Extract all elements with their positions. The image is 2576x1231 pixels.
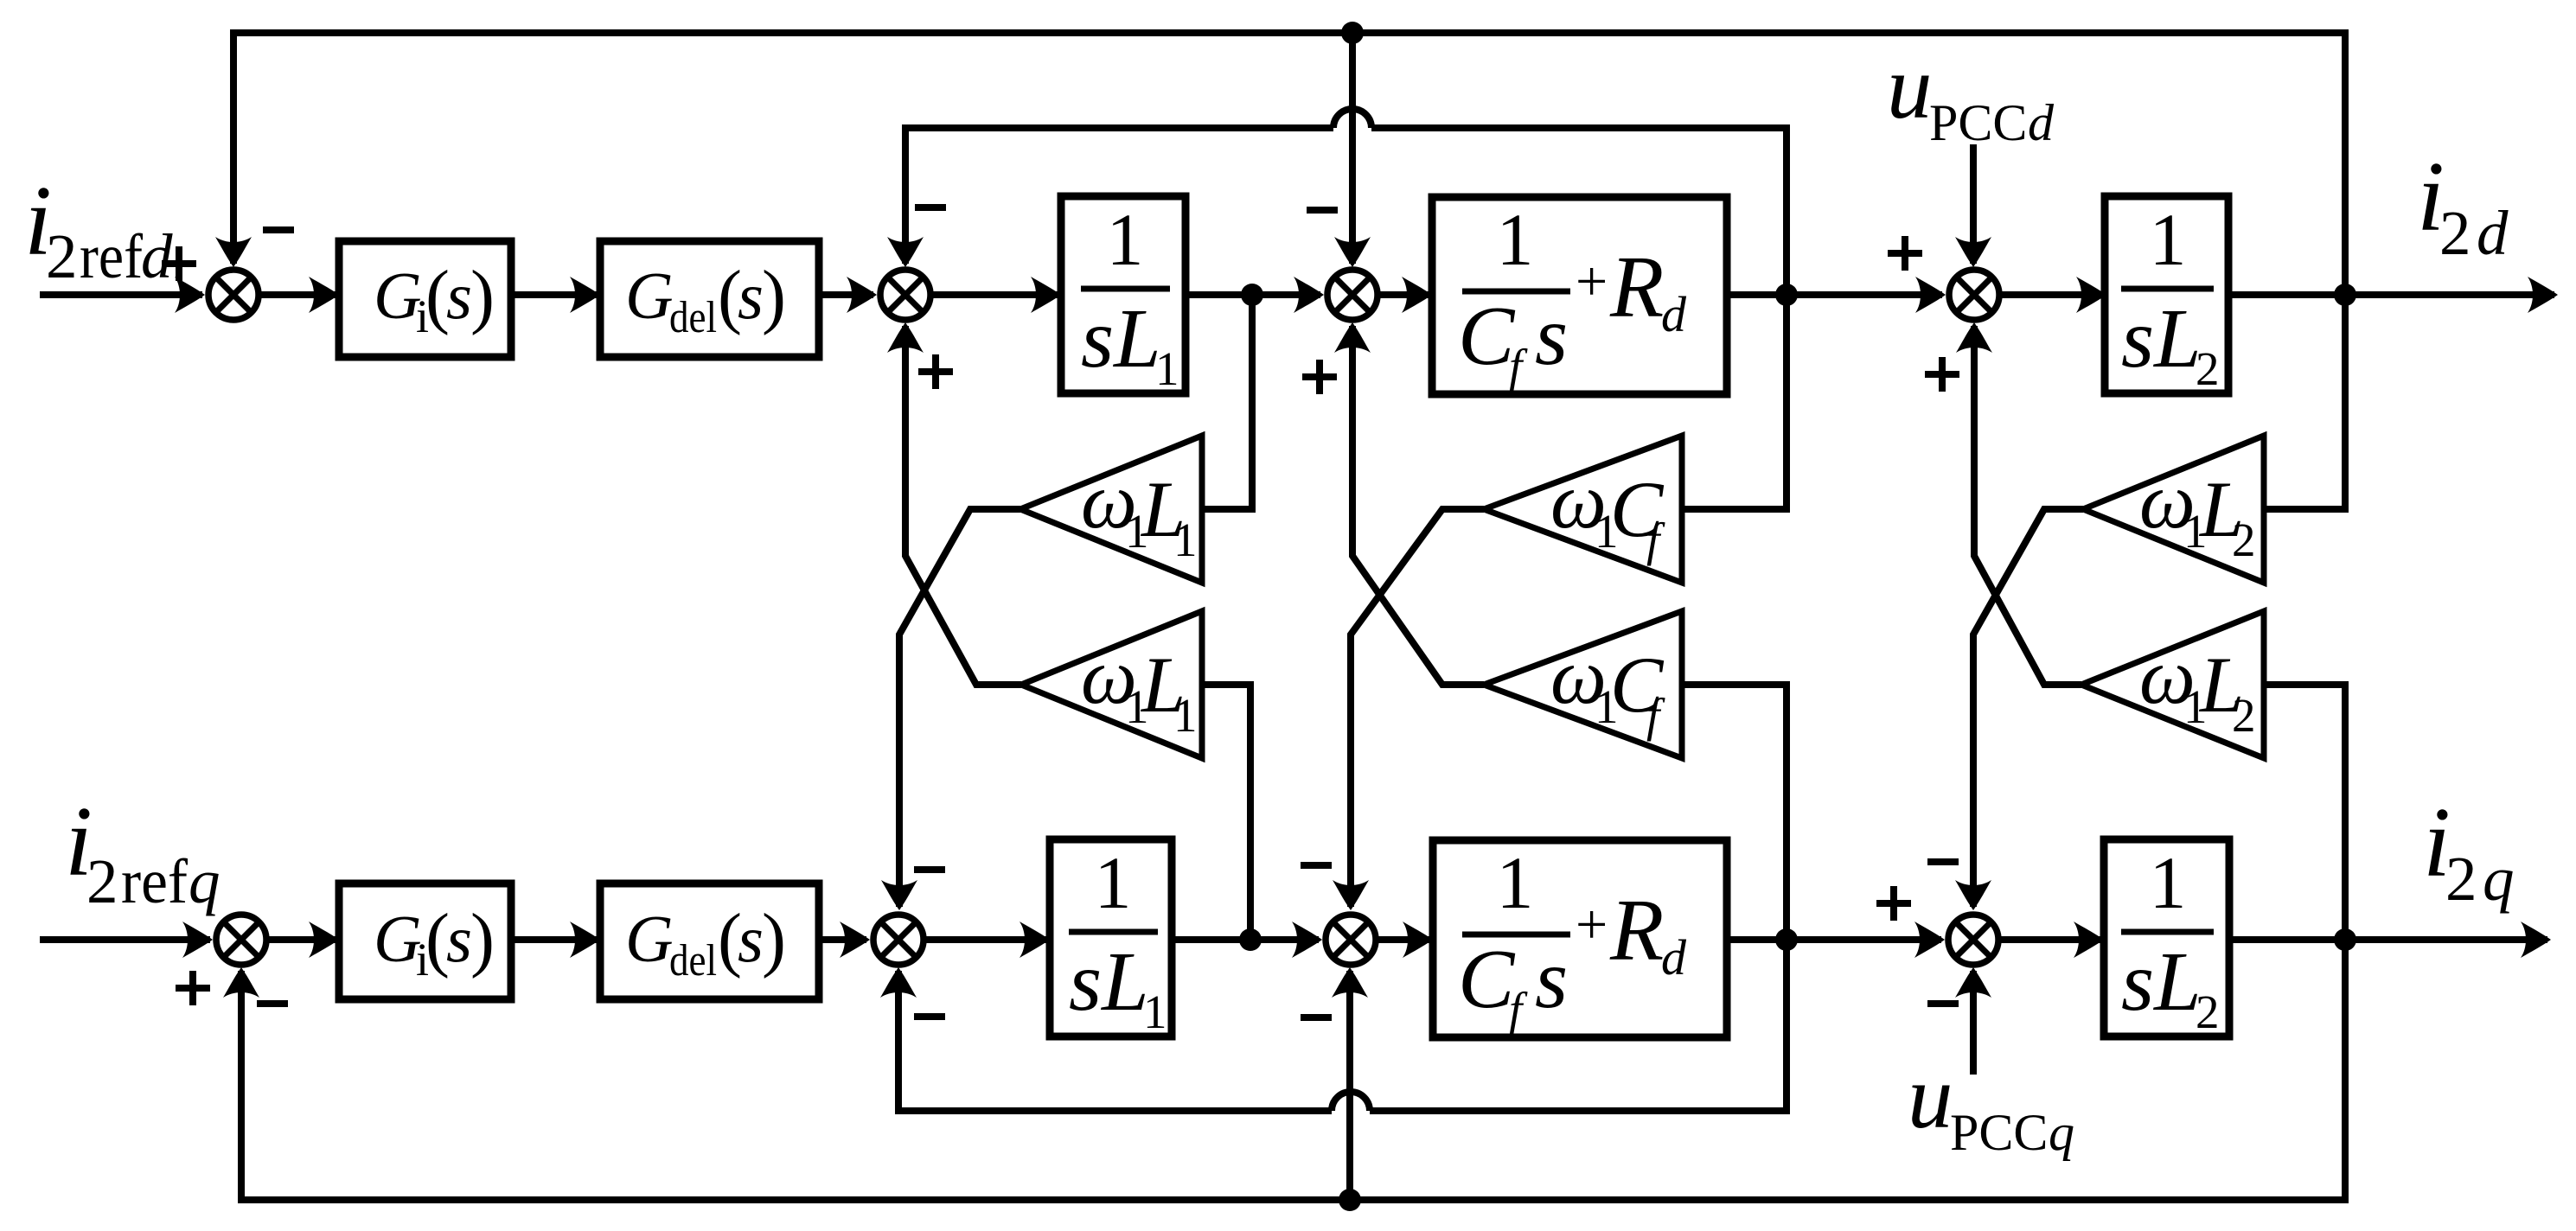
- svg-text:G: G: [625, 902, 674, 976]
- wire: i2q feedback bottom loop: [241, 940, 2345, 1200]
- block Gdel(s) d-axis: [600, 241, 819, 357]
- block Gdel(s) q-axis: [600, 883, 819, 999]
- wire: bottom feedback branch up to S3q: [1346, 971, 1353, 1200]
- sign plus at S3d bottom input: [1302, 360, 1337, 394]
- wire: w1L2 bottom output cross-coupled up to S4d: [1974, 326, 2081, 685]
- svg-text:2: 2: [86, 846, 118, 916]
- wire: S3q to Cf block q: [1378, 936, 1429, 943]
- svg-text:1: 1: [1155, 342, 1179, 395]
- svg-text:sL: sL: [1069, 935, 1149, 1029]
- wire: uCq feedforward to S2q with hop over S3q branch: [1370, 940, 1787, 1111]
- svg-text:s: s: [1535, 933, 1568, 1026]
- svg-text:1: 1: [2150, 841, 2187, 924]
- block 1/sL1 q-axis: [1050, 839, 1172, 1036]
- summing junction S2q: [873, 915, 924, 965]
- gain triangle w1Cf top (input uCd): [1484, 436, 1682, 583]
- svg-text:d: d: [1661, 929, 1687, 985]
- svg-text:sL: sL: [1081, 292, 1161, 386]
- node i2q junction dot: [2334, 928, 2356, 951]
- summing junction S4q: [1948, 915, 1998, 965]
- node i1d junction dot: [1241, 284, 1263, 306]
- sign minus at S2q bottom input: [914, 1016, 945, 1017]
- wire: 1/sL1 q to S3q with node i1q: [1172, 936, 1319, 943]
- svg-text:2: 2: [2196, 985, 2220, 1038]
- svg-text:R: R: [1609, 239, 1664, 336]
- svg-text:s: s: [446, 902, 472, 976]
- node uCq junction dot: [1775, 928, 1798, 951]
- wire: node i2q up into w1L2 bottom triangle input: [2264, 685, 2345, 940]
- svg-text:1: 1: [1095, 841, 1132, 924]
- svg-text:del: del: [669, 936, 717, 985]
- summing junction S1d (d-axis first): [208, 270, 259, 320]
- wire: Cf q to S4q with node uCq: [1727, 936, 1941, 943]
- gain triangle w1L2 top (input i2d): [2083, 436, 2264, 583]
- wire: 1/sL2 q to output i2q: [2229, 936, 2547, 943]
- wire: S2d to 1/sL1 d: [933, 291, 1058, 298]
- gain triangle w1L1 bottom (input i1q): [1021, 611, 1202, 758]
- sign plus at S1q main input: [176, 971, 210, 1005]
- wire: node uCq up into w1Cf bottom triangle input: [1682, 685, 1787, 940]
- svg-text:): ): [762, 899, 786, 979]
- sign minus at S4q top input: [1927, 861, 1959, 863]
- sign plus at S4d upper-left: [1888, 236, 1922, 271]
- wire: top feedback branch down to S3d: [1349, 33, 1356, 264]
- svg-text:2: 2: [2445, 844, 2477, 914]
- summing junction S3d: [1327, 270, 1377, 320]
- svg-text:2: 2: [46, 221, 78, 291]
- wire: S4q to 1/sL2 q: [2001, 936, 2100, 943]
- summing junction S3q: [1326, 915, 1376, 965]
- wire: w1Cf top output cross-coupled down to S3q: [1351, 509, 1484, 907]
- wire: Gi q to Gdel q: [511, 936, 597, 943]
- wire: d-axis input line i2refd: [40, 291, 202, 298]
- sign minus at S3d top input: [1307, 209, 1338, 211]
- summing junction S1q: [216, 915, 266, 965]
- wire: w1Cf bottom output cross-coupled up to S3d: [1352, 326, 1484, 685]
- wire: i2d feedback top loop: [233, 33, 2345, 295]
- wire: S2q to 1/sL1 q: [926, 936, 1046, 943]
- wire: Cf d to S4d with node uCd: [1727, 291, 1942, 298]
- wire: S4d to 1/sL2 d: [2002, 291, 2103, 298]
- wire: uCd feedforward to S2d with hop over S3d branch: [1371, 128, 1787, 295]
- svg-text:d: d: [1661, 286, 1687, 342]
- wire: node uCd down into w1Cf top triangle input: [1682, 295, 1787, 509]
- wire: 1/sL2 d to output i2d: [2228, 291, 2554, 298]
- svg-text:d: d: [2477, 198, 2509, 268]
- svg-text:del: del: [669, 293, 717, 342]
- svg-text:R: R: [1609, 882, 1664, 979]
- sign minus at S3q top input: [1301, 864, 1332, 866]
- svg-text:q: q: [2483, 844, 2515, 914]
- wire: S1d to Gi(s) d: [261, 291, 336, 298]
- wire: node i1q up into w1L1 bottom triangle input: [1202, 685, 1250, 940]
- svg-text:): ): [470, 256, 495, 336]
- sign minus at S4q bottom input: [1927, 1003, 1959, 1005]
- wire: q-axis input line i2refq: [40, 936, 210, 943]
- svg-text:q: q: [189, 846, 221, 916]
- sign minus at S3q bottom input: [1301, 1017, 1332, 1018]
- svg-text:1: 1: [1173, 689, 1198, 742]
- block 1/sL1 d-axis: [1061, 196, 1186, 393]
- node i2d junction dot: [2334, 284, 2356, 306]
- sign minus at S1q feedback input: [257, 1003, 288, 1005]
- wire: w1L2 top output cross-coupled down to S4q: [1973, 509, 2083, 907]
- sign minus at S2q top input: [914, 869, 945, 871]
- svg-text:s: s: [446, 258, 472, 333]
- block 1/sL2 d-axis: [2105, 196, 2228, 393]
- svg-text:ref: ref: [80, 221, 144, 291]
- svg-text:PCC: PCC: [1950, 1104, 2048, 1161]
- sign minus at S2d top input: [915, 207, 946, 208]
- svg-text:1: 1: [1143, 985, 1167, 1038]
- svg-text:+: +: [1576, 893, 1608, 956]
- wire: Gi d to Gdel d: [511, 291, 597, 298]
- node on bottom feedback line: [1339, 1189, 1361, 1211]
- wire: Gdel q to S2q: [819, 936, 866, 943]
- wire: w1L1 bottom output cross-coupled up to S2d: [905, 326, 1021, 685]
- svg-text:): ): [470, 899, 495, 979]
- svg-text:s: s: [738, 902, 764, 976]
- gain triangle w1L1 top (input i1d): [1020, 436, 1202, 583]
- svg-text:+: +: [1576, 250, 1608, 313]
- svg-text:2: 2: [2232, 513, 2256, 566]
- svg-text:s: s: [1535, 290, 1568, 383]
- block 1/sL2 q-axis: [2104, 839, 2229, 1036]
- block 1/(Cf s)+Rd d-axis: [1432, 197, 1727, 394]
- svg-text:G: G: [374, 902, 422, 976]
- svg-text:d: d: [2028, 94, 2055, 151]
- svg-text:u: u: [1908, 1046, 1953, 1147]
- block Gi(s) q-axis: [339, 883, 511, 999]
- node on top feedback line: [1341, 22, 1364, 44]
- svg-text:2: 2: [2232, 689, 2256, 742]
- sign plus at S4d bottom input: [1925, 357, 1959, 392]
- svg-text:d: d: [141, 221, 173, 291]
- svg-text:1: 1: [1107, 198, 1144, 281]
- svg-text:PCC: PCC: [1929, 94, 2027, 151]
- svg-text:G: G: [374, 258, 422, 333]
- svg-text:1: 1: [1173, 513, 1198, 566]
- svg-text:C: C: [1458, 933, 1516, 1026]
- wire: S3d to Cf block d: [1380, 291, 1429, 298]
- svg-text:2: 2: [2439, 198, 2471, 268]
- wire: uPCCq input arrow into S4q: [1970, 971, 1977, 1075]
- block 1/(Cf s)+Rd q-axis: [1433, 840, 1727, 1037]
- summing junction S4d: [1949, 270, 1999, 320]
- svg-text:ref: ref: [121, 846, 189, 916]
- svg-text:C: C: [1458, 290, 1516, 383]
- svg-text:1: 1: [1497, 198, 1534, 281]
- sign plus at S4q main input: [1876, 886, 1911, 921]
- wire: node i2d down into w1L2 top triangle input: [2264, 295, 2345, 509]
- summing junction S2d: [880, 270, 930, 320]
- node uCd junction dot: [1775, 284, 1798, 306]
- block Gi(s) d-axis: [339, 241, 511, 357]
- wire: Gdel d to S2d: [819, 291, 873, 298]
- gain triangle w1Cf bottom (input uCq): [1484, 611, 1682, 758]
- gain triangle w1L2 bottom (input i2q): [2081, 611, 2264, 758]
- svg-text:sL: sL: [2121, 935, 2202, 1029]
- sign plus at S2d bottom input: [918, 354, 953, 389]
- svg-text:2: 2: [2196, 342, 2220, 395]
- sign minus at S1d feedback input: [263, 229, 294, 231]
- wire: 1/sL1 d to S3d with node i1d: [1186, 291, 1320, 298]
- svg-text:u: u: [1887, 36, 1933, 137]
- node i1q junction dot: [1239, 928, 1262, 951]
- wire: S1q to Gi q: [269, 936, 336, 943]
- wire: node i1d down into w1L1 top triangle input: [1202, 295, 1252, 509]
- svg-text:1: 1: [2150, 198, 2187, 281]
- sign plus at S1d main input: [162, 246, 196, 281]
- svg-text:): ): [762, 256, 786, 336]
- svg-text:s: s: [738, 258, 764, 333]
- wire: w1L1 top output cross-coupled down to S2q: [899, 509, 1020, 907]
- svg-text:sL: sL: [2121, 292, 2202, 386]
- wire: uPCCd input arrow into S4d: [1970, 144, 1977, 264]
- svg-text:1: 1: [1497, 841, 1534, 924]
- svg-text:G: G: [625, 258, 674, 333]
- svg-text:q: q: [2049, 1104, 2074, 1161]
